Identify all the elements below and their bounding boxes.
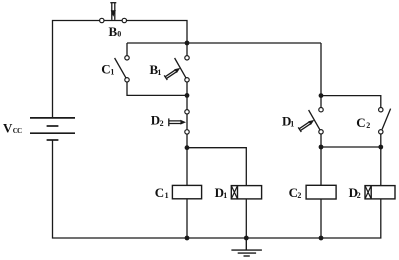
pushbutton B0 right contact circle <box>122 18 126 22</box>
switch D2 bottom contact circle <box>185 130 189 134</box>
switch D2 top contact circle <box>185 110 189 114</box>
wire drop from second rail to C1 top contact <box>126 43 128 56</box>
wire D1 bottom through junction to C2 coil <box>320 134 322 185</box>
switch C2 bottom contact circle <box>379 130 383 134</box>
junction node mid-right rail / D2 coil branch <box>378 145 383 150</box>
label B0 <box>109 24 122 39</box>
switch C2 blade <box>382 109 391 130</box>
switch C1 blade <box>115 58 126 78</box>
wire top-left rail from battery to B0 <box>53 21 100 118</box>
svg-text:2: 2 <box>366 121 370 130</box>
switch B1 bottom contact circle <box>185 78 189 82</box>
switch C1 top contact circle <box>125 56 129 60</box>
switch D2 closed contact bar <box>186 114 188 130</box>
switch D1 actuator arrowhead <box>308 120 314 125</box>
wire mid-right rail <box>321 146 381 148</box>
switch D1 bottom contact circle <box>319 130 323 134</box>
wire D1 coil bottom to ground rail <box>245 199 247 238</box>
pushbutton B0 actuator arrowhead <box>111 10 116 17</box>
svg-text:2: 2 <box>160 119 164 128</box>
junction node bottom rail / ground <box>244 236 249 241</box>
wire B1 bottom to mid-left junction and down to D2 contact <box>186 82 188 110</box>
junction node mid-right rail / C2 coil branch <box>319 145 324 150</box>
wire C1 coil bottom to ground rail <box>186 199 188 238</box>
svg-text:C: C <box>101 62 110 77</box>
label VCC <box>3 120 22 135</box>
battery VCC plate short bottom <box>47 139 59 141</box>
label C2 coil <box>289 185 302 200</box>
switch D1 top contact circle <box>319 108 323 112</box>
svg-text:0: 0 <box>117 30 121 39</box>
wire right column drop from rail2 through junction to D1 contact <box>320 43 322 107</box>
junction node bottom rail / C2 coil <box>319 236 324 241</box>
label D2 switch <box>151 113 164 128</box>
battery VCC plate long lower <box>30 132 75 134</box>
switch D1 actuator cap <box>298 127 301 132</box>
switch C1 bottom contact circle <box>125 78 129 82</box>
junction node rail2 / middle column <box>185 41 190 46</box>
switch C2 top contact circle <box>379 108 383 112</box>
pushbutton B0 actuator shaft double lines <box>112 3 115 20</box>
ground <box>231 238 262 256</box>
switch D1 actuator shaft double lines <box>299 122 310 130</box>
wire C2 coil bottom to ground rail <box>320 199 322 238</box>
svg-text:2: 2 <box>357 191 361 200</box>
svg-text:C: C <box>155 185 164 200</box>
wire mid-right junction down to D2 coil <box>380 147 382 186</box>
label C1 coil <box>155 185 169 200</box>
switch B1 blade <box>175 58 186 78</box>
pushbutton B1 actuator shaft double lines <box>165 70 176 78</box>
svg-text:V: V <box>3 120 13 135</box>
wire branch junction to D1 coil <box>187 148 246 186</box>
junction node bottom rail / C1 coil <box>185 236 190 241</box>
pushbutton B0 actuator cap <box>110 2 116 4</box>
svg-text:1: 1 <box>157 68 161 77</box>
wire C2 switch bottom to mid-right junction <box>380 134 382 147</box>
svg-text:1: 1 <box>223 191 227 200</box>
label D1 coil <box>215 185 228 200</box>
pushbutton B1 actuator cap <box>164 75 167 80</box>
switch D2 actuator arrowhead <box>180 120 186 125</box>
switch D2 actuator cap <box>168 118 170 126</box>
relay coil C2 <box>306 185 336 199</box>
switch B1 top contact circle <box>185 56 189 60</box>
label D2 coil <box>349 185 361 200</box>
junction node right top rail / D1 column <box>319 93 324 98</box>
pushbutton B1 actuator arrowhead <box>174 68 180 73</box>
wire battery negative down to bottom rail and bottom rail to D2 coil riser <box>53 140 381 238</box>
svg-text:1: 1 <box>110 67 114 76</box>
svg-text:CC: CC <box>13 127 22 135</box>
switch D1 blade <box>309 110 320 130</box>
label D1 switch <box>282 114 294 129</box>
battery VCC plate long top <box>30 117 75 119</box>
svg-text:B: B <box>109 24 118 39</box>
svg-text:1: 1 <box>165 191 169 200</box>
switch D2 actuator shaft double lines <box>169 121 181 124</box>
relay coil C1 <box>172 185 201 198</box>
wire D2 bottom through junction to C1 coil <box>186 134 188 185</box>
svg-text:1: 1 <box>290 120 294 129</box>
label B1 switch <box>150 62 162 77</box>
relay coil D1 <box>231 186 261 199</box>
label C1 switch <box>101 62 114 77</box>
svg-text:C: C <box>356 115 365 130</box>
svg-text:2: 2 <box>297 191 301 200</box>
pushbutton B0 closed contact bar <box>104 20 122 22</box>
wire right top rail to C2 contact <box>321 96 381 108</box>
battery VCC plate short upper <box>47 125 59 127</box>
junction node middle column coil branch <box>185 145 190 150</box>
wire C1 bottom to mid-left rail <box>127 82 187 95</box>
label C2 switch <box>356 115 370 130</box>
wire top rail from B0 to middle column with drop to rail2 and B1 <box>127 21 188 56</box>
pushbutton B0 left contact circle <box>100 18 104 22</box>
wire second rail <box>127 42 321 44</box>
relay coil D2 <box>365 186 395 199</box>
junction node mid-left rail / middle column <box>185 93 190 98</box>
